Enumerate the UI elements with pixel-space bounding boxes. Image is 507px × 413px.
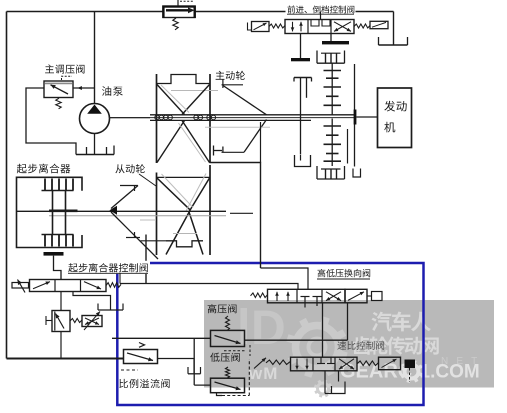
ratio control valve cell2 blocked [317, 363, 325, 365]
low pressure valve arrow [215, 382, 241, 390]
main pressure regulating valve pilot dash [62, 76, 73, 80]
driven pulley movable sheave cone lower [111, 212, 158, 259]
clutch control valve label backing [116, 261, 150, 274]
wire top right drop [393, 12, 395, 46]
relief valve spring [173, 18, 178, 30]
planetary ladder upper [331, 63, 333, 114]
high/low valve pilot stub [367, 295, 372, 297]
watermark big gear icon [296, 326, 339, 369]
high/low valve pilot end box [372, 292, 383, 301]
label 起步离合器控制阀 [68, 263, 148, 272]
primary pulley right sheave vertical [209, 74, 211, 163]
proportional solenoid X arrows [85, 318, 99, 325]
high/low valve port drops [322, 303, 324, 357]
driven pulley step shade [173, 233, 197, 235]
planetary left frame [294, 77, 312, 79]
low pressure valve body [211, 378, 245, 393]
fwd/rev valve right pilot box [370, 21, 388, 28]
label 前进、倒档控制阀 [288, 5, 355, 13]
wire regulator left to tank loop [26, 88, 76, 155]
clutch drum top [317, 51, 345, 64]
clutch control valve cell1 arrow [33, 282, 50, 289]
ring drum right vertical upper [354, 64, 356, 110]
wire pump feed vertical [94, 12, 96, 104]
fwd/rev valve left pilot box [252, 22, 270, 32]
main pressure regulating valve spring [56, 98, 61, 109]
wire top bus right [195, 11, 394, 13]
clutch drum bottom [317, 166, 345, 179]
ratio control valve cell1 arrows [296, 359, 298, 370]
fwd/rev valve right spring [354, 24, 370, 28]
wire pump suction [94, 134, 96, 155]
label 主动轮 [216, 71, 245, 80]
driven shaft [17, 210, 226, 212]
svg-text:D: D [251, 302, 286, 355]
clutch control valve left pilot body [12, 283, 29, 289]
ratio control valve cell3 X arrows [339, 359, 354, 369]
proportional relief valve 比例溢流阀 body [124, 350, 158, 364]
primary pulley cone diagonals [157, 85, 185, 115]
low pressure valve pilot dashes [222, 395, 249, 397]
ratio valve pilot dashes [409, 368, 411, 382]
label 主调压阀 [45, 64, 84, 73]
proportional relief valve check mark [139, 343, 145, 348]
fwd/rev valve left spring [269, 24, 285, 28]
clutch hub columns [52, 191, 54, 235]
driven pulley cylinder step [166, 241, 203, 247]
primary pulley movable sheave cone upper [223, 86, 267, 115]
wire feed from primary line [261, 268, 309, 289]
relief valve pilot dash [177, 0, 179, 6]
driven pulley right sheave vertical [209, 165, 211, 255]
wire bottom bus [7, 358, 124, 360]
planetary inner drum vertical [347, 129, 349, 164]
label 比例溢流阀 [119, 379, 169, 388]
high/low directional valve label underline [317, 278, 370, 280]
driven pulley cone shadow [162, 174, 194, 208]
label 发动 [384, 101, 406, 112]
wire high/low feed from driven pulley [120, 284, 298, 290]
watermark small gear bottom [318, 383, 329, 394]
wire low pressure valve bottom [217, 393, 223, 396]
fwd/rev valve label underline [287, 13, 354, 15]
clutch control valve label underline [68, 272, 148, 274]
main pressure regulating valve arrow [51, 85, 69, 94]
label 速比控制阀 [337, 341, 384, 350]
ratio control valve right spring [357, 361, 378, 366]
oil pump 油泵 circle [80, 104, 110, 134]
fwd/rev valve left tank [248, 23, 252, 31]
shaft spline rollers [155, 115, 159, 119]
engine box 发动机 [378, 88, 412, 148]
main pressure regulating valve shade [45, 82, 72, 84]
planetary ladder lower [331, 119, 333, 167]
input shaft lines [150, 114, 354, 116]
wire regulator right to pump feed [73, 87, 95, 89]
svg-text:1.COM: 1.COM [420, 362, 480, 383]
relief valve (top) body [163, 6, 195, 18]
high/low valve cell1 up arrows [276, 292, 278, 301]
label 高压阀 [208, 304, 237, 313]
proportional relief valve arrow [127, 353, 153, 361]
label 从动轮 [115, 164, 145, 173]
watermark gray band [204, 300, 494, 388]
high/low directional valve left spring [251, 293, 268, 298]
pressure reducing valve piston bars [54, 312, 56, 331]
wire outer left vertical [6, 12, 8, 359]
starting clutch 起步离合器 bracket [17, 177, 83, 247]
wire valve tank branch [73, 292, 111, 311]
primary pulley cone shadow [161, 85, 189, 113]
wire low pressure feed riser [193, 338, 195, 385]
fwd/rev valve cell1 arrows [292, 22, 294, 32]
driven pulley movable sheave apex [110, 206, 118, 215]
watermark text 汽车人 [372, 312, 431, 332]
ring drum right vertical lower [354, 125, 356, 167]
ratio control valve left spring [266, 360, 290, 365]
watermark letters ID [241, 308, 248, 344]
clutch control valve body [30, 280, 107, 292]
wire shaft to engine [356, 116, 377, 118]
wire driven cylinder feed [145, 235, 147, 284]
pressure reducing valve spring [70, 319, 82, 323]
driven pulley cone diagonals [157, 178, 190, 210]
label 高低压换向阀 [318, 269, 371, 277]
fwd/rev valve cell3 X arrows [334, 22, 351, 32]
tank near clutch valve [97, 304, 99, 311]
oil pump triangle [87, 105, 102, 114]
forward clutch port stub [300, 34, 302, 59]
pressure reducing valve inlet stub [46, 320, 52, 322]
high pressure valve arrow [215, 336, 241, 344]
pressure reducing valve body [52, 311, 70, 332]
primary pulley top cap [157, 75, 211, 84]
high pressure valve body [211, 330, 245, 346]
clutch control valve cell3 arrow [84, 282, 101, 289]
label 油泵 [102, 86, 123, 96]
driven pulley top bar [157, 176, 211, 178]
proportional solenoid strike arrow [84, 312, 100, 331]
high pressure valve pilot dash [224, 350, 246, 352]
high/low valve pilot box [345, 289, 367, 303]
label 低压阀 [210, 353, 240, 362]
reverse brake port stub [330, 34, 332, 42]
wire relief valve outlet [158, 359, 195, 374]
pressure reducing valve arrow [56, 314, 65, 329]
relief valve arrow [166, 9, 188, 11]
primary pulley cylinder lines [213, 146, 215, 156]
svg-text:wM: wM [248, 364, 278, 383]
primary pulley shade line [171, 90, 218, 92]
wire top bus left [7, 11, 164, 13]
low pressure valve 低压阀 spring [226, 367, 230, 378]
wire high pressure valve to directional valve [245, 339, 348, 341]
wire valve to reducing valve [60, 292, 62, 311]
primary pulley 主动轮 left sheave vertical [156, 74, 158, 163]
wire driven cylinder tick [141, 240, 167, 242]
wire primary cylinder feed [210, 163, 261, 269]
clutch top plates [42, 190, 74, 192]
ratio control valve end block [405, 360, 416, 369]
ratio control valve right pilot box [379, 357, 401, 370]
flywheel bar [354, 110, 357, 125]
shaft shade right [205, 126, 270, 128]
fwd/rev valve cell2 blocked [311, 20, 319, 27]
high/low valve cell3 X arrows [326, 292, 341, 301]
clutch control valve right spring [106, 283, 121, 288]
tank after relief valve [187, 367, 189, 374]
fwd/rev valve label backing [286, 2, 356, 15]
wire pump outlet [110, 117, 151, 119]
high pressure valve 高压阀 spring [226, 316, 230, 330]
wire high pressure feed horizontal [112, 337, 210, 339]
ratio control valve port stems [324, 371, 326, 394]
primary pulley movable sheave cone lower [244, 120, 267, 153]
wire reducing valve to bus [60, 332, 62, 359]
driven pulley label callout [139, 174, 156, 186]
main pressure regulating valve 主调压阀 body [44, 81, 73, 98]
driven pulley movable sheave cone upper [111, 186, 138, 209]
label 起步离合器 [17, 164, 71, 174]
tank under pump [76, 154, 114, 156]
high/low valve cell2 blocked ports [301, 296, 310, 298]
clutch piston bar [44, 252, 64, 256]
clutch control valve label drop [119, 273, 121, 283]
proportional relief valve pilot dash [121, 369, 138, 371]
label 机 [384, 122, 395, 133]
forward clutch piston bar [291, 58, 310, 61]
wire clutch piston feed [54, 256, 62, 280]
fwd/rev valve top stub [320, 12, 322, 20]
blue highlight box (low/high pressure valve group) [117, 263, 423, 405]
watermark small gear as O [405, 365, 419, 379]
small cup right [353, 169, 361, 178]
fwd/rev valve body [285, 20, 354, 34]
high/low directional valve body [268, 289, 346, 303]
clutch bottom plates [42, 234, 74, 236]
clutch shaft thick segment [49, 210, 78, 213]
clutch control valve left pilot arrow [18, 280, 26, 293]
proportional solenoid valve body [82, 316, 102, 327]
tank top right [378, 37, 380, 45]
ratio control valve body [291, 357, 358, 371]
planetary left cup [295, 155, 311, 167]
tank below ratio valve [325, 382, 345, 394]
watermark text 齿轮传动网 [353, 336, 439, 354]
ratio control valve left pilot arrow [254, 358, 266, 369]
driven pulley 从动轮 left sheave vertical [156, 173, 158, 256]
reverse brake piston bar [322, 41, 349, 44]
